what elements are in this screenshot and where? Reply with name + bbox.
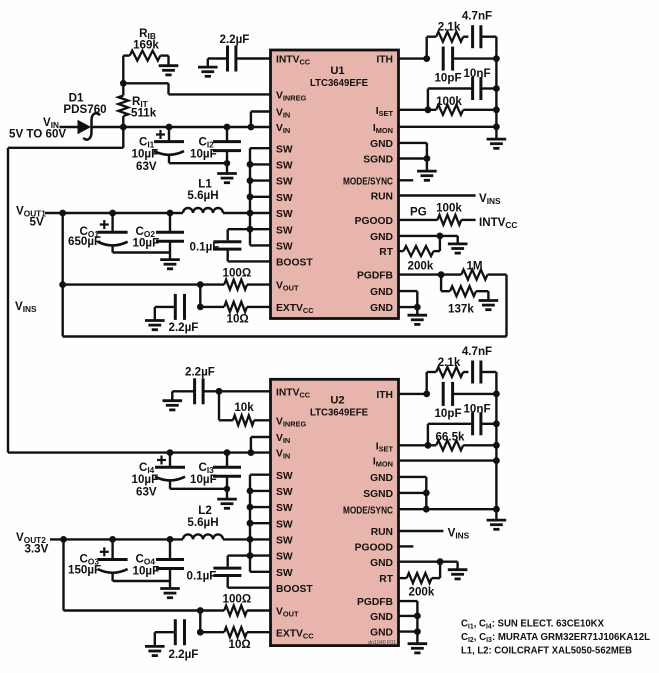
svg-text:10pF: 10pF: [434, 72, 461, 85]
pin label ITH of U1: [376, 55, 393, 66]
pin label SGND of U2: [363, 489, 393, 500]
svg-text:SW: SW: [276, 519, 293, 530]
resistor 100k PGOOD U1: [438, 215, 476, 225]
note line 3 L1 L2: [461, 645, 632, 656]
IC U1 part number LTC3649EFE: [310, 78, 368, 89]
svg-text:10Ω: 10Ω: [227, 313, 249, 326]
label 0.1uF U2: [187, 570, 217, 583]
svg-text:2.1k: 2.1k: [438, 356, 461, 369]
capacitor 2.2uF at U2 INTVCC: [195, 378, 204, 404]
pin label SW2 of U1: [276, 161, 293, 172]
plus sign CI4: [157, 456, 166, 465]
net label PG: [410, 206, 427, 219]
capacitor 4.7nF U1: [473, 25, 481, 48]
wire VIN rail left run: [8, 147, 123, 149]
ground below RIB: [159, 66, 179, 75]
wire VOUT row: [63, 283, 225, 285]
wire right bus: [495, 37, 497, 139]
svg-text:63V: 63V: [136, 486, 157, 499]
svg-text:10nF: 10nF: [463, 402, 490, 415]
wire U2 PGDFB to GND chain: [399, 601, 418, 644]
wire PGDFB down to 137k: [440, 275, 442, 292]
wire U2 ITH to bus: [453, 393, 497, 395]
ground below CO2: [160, 260, 180, 269]
pin label SW1 of U2: [276, 471, 293, 482]
svg-text:RT: RT: [379, 247, 393, 258]
label CI3: [199, 461, 215, 475]
resistor 100k ISET U1: [436, 105, 496, 115]
pin label VIN (lower) of U1: [276, 123, 290, 135]
svg-text:10µF: 10µF: [132, 473, 159, 486]
label 10pF U2: [434, 407, 461, 420]
svg-text:5.6µH: 5.6µH: [187, 189, 218, 202]
ground below CI3: [217, 499, 237, 508]
svg-text:1M: 1M: [466, 260, 482, 273]
pin label SW7 of U1: [276, 242, 293, 253]
label 2.2uF at U2 EXTVCC: [169, 648, 199, 661]
wire U2 10nF to bus: [481, 423, 497, 425]
label 2.1k U2: [438, 356, 461, 369]
svg-text:SW: SW: [276, 568, 293, 579]
svg-text:66.5k: 66.5k: [435, 430, 465, 443]
wire VIN rail drop: [122, 127, 124, 148]
net label VIN 5V TO 60V: [9, 116, 66, 141]
capacitor CI1 10uF 63V: [154, 127, 184, 163]
pin label GND of U2: [370, 473, 393, 484]
svg-text:LTC3649EFE: LTC3649EFE: [310, 78, 368, 89]
svg-text:SW: SW: [276, 503, 293, 514]
pin label PGDFB of U2: [357, 597, 393, 608]
label L2: [198, 504, 212, 517]
svg-text:BOOST: BOOST: [276, 584, 313, 595]
wire PGOOD pin: [399, 219, 438, 221]
wire U2 right bus: [495, 372, 497, 520]
wire SW4 pin stub: [250, 196, 271, 198]
IC U2 reference designator: [330, 394, 344, 406]
svg-text:SW: SW: [276, 536, 293, 547]
wire U2 SW2 pin stub: [250, 490, 271, 492]
svg-text:PGOOD: PGOOD: [355, 543, 393, 554]
pin label SW7 of U2: [276, 568, 293, 579]
pin label BOOST of U1: [276, 258, 313, 269]
svg-text:10Ω: 10Ω: [229, 638, 251, 651]
note line 2 CI2 CI3: [461, 632, 651, 644]
label 100ohm U2: [223, 593, 252, 606]
pin label ISET of U2: [376, 441, 394, 453]
pin label PGOOD of U2: [355, 543, 393, 554]
svg-text:PGDFB: PGDFB: [357, 597, 393, 608]
svg-text:650µF: 650µF: [68, 235, 101, 248]
wire U2 SW bus vertical: [249, 475, 251, 572]
node CI1 tap: [166, 124, 173, 131]
node VOUT sense tap: [59, 281, 66, 288]
wire U2 ISET pin: [399, 444, 437, 446]
node EXTVCC row junction: [197, 304, 204, 311]
wire U2 SW7 pin stub: [250, 571, 271, 573]
node U2 column top: [197, 607, 204, 614]
pin label VIN (lower) of U2: [276, 449, 290, 461]
capacitor 2.2uF at U2 EXTVCC: [175, 619, 184, 645]
svg-text:IMON: IMON: [373, 457, 393, 469]
wire ITH up branch: [426, 37, 428, 59]
ground right bus U2: [487, 520, 507, 529]
wire PGDFB pin: [399, 273, 442, 275]
pin label INTVCC of U1: [276, 55, 311, 67]
op-amp-style IC U1 LTC3649EFE body: [271, 50, 399, 319]
svg-text:137k: 137k: [448, 303, 474, 316]
node U2 GND3 junction: [414, 613, 421, 620]
svg-text:4.7nF: 4.7nF: [462, 345, 492, 358]
wire 0.1uF to BOOST U2: [228, 576, 271, 588]
wire IMON pin: [399, 126, 497, 128]
wire SGND pin: [399, 157, 427, 159]
net label INTVCC at U1 PGOOD: [479, 216, 517, 230]
ground at U1 INTVCC cap: [198, 67, 218, 76]
wire U2 2.2uF left to ground: [155, 632, 176, 646]
wire U1 GND pins chain: [399, 291, 418, 315]
svg-text:63V: 63V: [136, 160, 157, 173]
svg-text:0.1µF: 0.1µF: [190, 241, 220, 254]
net label VOUT1 5V: [16, 205, 46, 229]
label 0.1uF U1: [190, 241, 220, 254]
svg-text:2.2µF: 2.2µF: [185, 366, 215, 379]
label PDS760: [63, 103, 106, 116]
node 10nF bus junction: [493, 85, 500, 92]
svg-text:MODE/SYNC: MODE/SYNC: [343, 176, 393, 187]
node U2 SW bus junction 6: [247, 552, 254, 559]
svg-text:SW: SW: [276, 471, 293, 482]
node SW bus junction 6: [247, 226, 254, 233]
resistor 10ohm U2: [200, 627, 270, 637]
svg-text:SW: SW: [276, 209, 293, 220]
label 10ohm U2: [229, 638, 251, 651]
svg-text:2.2µF: 2.2µF: [169, 321, 199, 334]
net label VOUT2 3.3V: [16, 531, 49, 556]
capacitor 0.1uF BOOST U2: [213, 568, 241, 575]
svg-text:0.1µF: 0.1µF: [187, 570, 217, 583]
ground at U1 EXTVCC cap: [145, 321, 165, 330]
node SW bus junction 3: [247, 177, 254, 184]
wire ITH to bus: [453, 57, 497, 59]
node ITH junction: [423, 55, 430, 62]
node VOUT1: [59, 210, 66, 217]
pin label SW3 of U2: [276, 503, 293, 514]
node ITH bus junction: [493, 55, 500, 62]
svg-text:VIN: VIN: [276, 449, 290, 461]
label 100k PGOOD U1: [436, 202, 462, 215]
node SW bus junction 4: [247, 193, 254, 200]
wire U2 4.7nF to bus: [481, 371, 497, 373]
node CI2 tap: [224, 124, 231, 131]
resistor 10k U2: [233, 415, 271, 425]
svg-text:ITH: ITH: [376, 390, 393, 401]
pin label GND (RT row) of U1: [370, 232, 393, 243]
pin label VIN (upper) of U1: [276, 108, 290, 120]
svg-text:GND: GND: [370, 303, 393, 314]
svg-text:L1, L2: COILCRAFT XAL5050-562M: L1, L2: COILCRAFT XAL5050-562MEB: [461, 645, 632, 656]
label CI4 10uF: [132, 473, 159, 486]
svg-text:SW: SW: [276, 242, 293, 253]
svg-text:MODE/SYNC: MODE/SYNC: [343, 505, 393, 516]
node U2 SW bus junction 2: [247, 488, 254, 495]
wire 0.1uF to BOOST: [228, 249, 271, 261]
pin label GND (bottom) of U1: [370, 303, 393, 314]
svg-text:100k: 100k: [436, 95, 462, 108]
diode D1 PDS760 symbol: [78, 113, 101, 139]
wire 4.7nF to bus: [481, 36, 497, 38]
svg-text:VINREG: VINREG: [276, 416, 307, 428]
svg-text:GND: GND: [370, 473, 393, 484]
svg-text:SW: SW: [276, 552, 293, 563]
wire 10nF branch: [428, 89, 473, 110]
svg-text:100Ω: 100Ω: [223, 593, 252, 606]
op-amp-style IC U2 LTC3649EFE body: [271, 379, 399, 645]
label 2.2uF at U1 INTVCC: [220, 33, 250, 46]
svg-text:RUN: RUN: [371, 192, 393, 203]
label 169k: [133, 39, 159, 52]
capacitor 0.1uF BOOST U1: [213, 242, 241, 249]
wire CI4-CI3 bottom: [170, 488, 227, 490]
label RIB: [139, 27, 156, 41]
ground at 137k: [479, 301, 499, 310]
svg-text:511k: 511k: [131, 107, 157, 120]
resistor 2.1k U2: [427, 367, 469, 377]
wire GND pin to SGND: [399, 143, 427, 159]
node CO4 tap: [167, 536, 174, 543]
pin label VINREG of U1: [276, 91, 307, 103]
node U2 IMON bus junction: [493, 457, 500, 464]
label CO1: [80, 225, 100, 239]
wire VOUT2 to L2: [50, 538, 183, 540]
svg-text:LTC3649EFE: LTC3649EFE: [310, 407, 368, 418]
wire VIN bus: [251, 112, 271, 128]
wire SW bus tap to 0.1uF: [228, 229, 250, 240]
svg-text:EXTVCC: EXTVCC: [276, 628, 314, 640]
wire L1 to SW bus: [223, 212, 250, 214]
node U2 INTVCC junction: [216, 388, 223, 395]
label 10ohm U1: [227, 313, 249, 326]
pin label VIN (upper) of U2: [276, 433, 290, 445]
wire U2 SW4 pin stub: [250, 522, 271, 524]
label 200k U2: [409, 586, 435, 599]
svg-text:INTVCC: INTVCC: [276, 387, 311, 399]
pin label SW4 of U2: [276, 519, 293, 530]
label CI1 10uF: [132, 148, 159, 161]
wire RIB node to VINREG step: [123, 83, 270, 94]
wire U2 GND3 pin: [399, 615, 418, 617]
svg-text:ISET: ISET: [376, 441, 394, 453]
node U2 GND/RT junction: [437, 558, 444, 565]
pin label EXTVCC of U1: [276, 303, 314, 315]
node U2 ISET bus junction: [493, 442, 500, 449]
wire VIN row: [123, 126, 251, 128]
svg-text:5V: 5V: [30, 216, 44, 229]
wire VOUT2 vertical drop: [62, 539, 64, 610]
wire U2 VIN row: [8, 451, 251, 453]
resistor 2.1k U1: [427, 32, 469, 42]
svg-text:SW: SW: [276, 177, 293, 188]
svg-text:100Ω: 100Ω: [223, 267, 252, 280]
resistor RIB 169k: [123, 51, 168, 61]
inductor L1 5.6uH: [183, 208, 223, 213]
svg-text:GND: GND: [370, 139, 393, 150]
pin label GND of U1: [370, 139, 393, 150]
label CO3: [80, 553, 100, 567]
svg-text:dn1040 F01: dn1040 F01: [368, 640, 396, 646]
plus sign CO3: [100, 547, 109, 556]
IC U2 part number LTC3649EFE: [310, 407, 368, 418]
ground right bus U1: [487, 139, 507, 148]
label 2.1k U1: [438, 21, 461, 34]
pin label MODE/SYNC of U1: [343, 176, 393, 187]
wire U2 SW6 pin stub: [250, 554, 271, 556]
wire RIB to ground: [167, 56, 169, 66]
pin label RUN of U2: [371, 527, 393, 538]
label 66.5k: [435, 430, 465, 443]
capacitor 10pF U1: [443, 47, 452, 71]
net label VINS at U1 RUN: [479, 192, 501, 206]
label CI2: [199, 136, 215, 150]
node U2 ITH junction: [423, 391, 430, 398]
svg-text:SW: SW: [276, 144, 293, 155]
wire INTVCC to 10k: [219, 391, 233, 420]
net label VINS on left rail: [15, 300, 37, 314]
pin label INTVCC of U2: [276, 387, 311, 399]
wire SW7 pin stub: [250, 244, 271, 246]
svg-text:IMON: IMON: [373, 123, 393, 135]
node U2 MODE bus junction: [493, 506, 500, 513]
capacitor CO3 150uF: [98, 539, 128, 581]
node CO2 tap: [167, 210, 174, 217]
wire U2 SGND pin: [399, 492, 427, 494]
svg-text:10µF: 10µF: [132, 148, 159, 161]
svg-text:SW: SW: [276, 161, 293, 172]
label L1 5.6uH: [187, 189, 218, 202]
svg-text:SW: SW: [276, 225, 293, 236]
resistor 10ohm U1: [200, 302, 270, 312]
svg-text:GND: GND: [370, 628, 393, 639]
svg-text:VIN: VIN: [276, 433, 290, 445]
node VIN main node: [120, 124, 127, 131]
wire VOUT1 vertical drop: [62, 213, 64, 337]
wire U2 column: [199, 611, 201, 633]
svg-text:10µF: 10µF: [190, 473, 217, 486]
wire RIT node up to RIB: [122, 56, 124, 84]
ground at U2 INTVCC cap: [163, 401, 183, 410]
svg-text:200k: 200k: [408, 260, 434, 273]
ground at U2 RT GND: [448, 570, 468, 579]
wire GND pin RT row: [399, 235, 440, 237]
wire CO4 bottom to ground: [169, 581, 171, 589]
capacitor CI2 10uF: [213, 127, 241, 163]
wire RUN pin: [399, 194, 476, 196]
node ISET bus junction: [493, 106, 500, 113]
label 10k: [234, 401, 254, 414]
svg-text:PDS760: PDS760: [63, 103, 106, 116]
node VOUT2: [60, 536, 67, 543]
node SW bus junction 5: [247, 210, 254, 217]
wire VIN input: [60, 126, 78, 128]
node CI4 tap: [167, 449, 174, 456]
capacitor CO1 650uF: [98, 213, 128, 253]
svg-text:VOUT: VOUT: [276, 607, 299, 619]
svg-text:2.2µF: 2.2µF: [220, 33, 250, 46]
label CO4 10uF: [133, 565, 160, 578]
svg-text:VINREG: VINREG: [276, 91, 307, 103]
pin label ITH of U2: [376, 390, 393, 401]
wire ISET pin: [399, 109, 437, 111]
label CO1 650uF: [68, 235, 101, 248]
wire SW bus vertical: [249, 148, 251, 245]
wire U2 VOUT row: [64, 609, 225, 611]
svg-text:VIN: VIN: [276, 123, 290, 135]
node CI2 bottom: [224, 160, 230, 166]
label 10nF U1: [463, 67, 490, 80]
label CO3 150uF: [68, 564, 101, 577]
ground below CI2: [217, 174, 237, 183]
note line 1 CI1 CI4: [461, 619, 604, 631]
svg-text:PG: PG: [410, 206, 427, 219]
wire INTVCC pin to cap: [236, 57, 271, 59]
wire U2 GND pin to SGND: [399, 477, 427, 509]
wire SW2 pin stub: [250, 163, 271, 165]
capacitor CI4 10uF 63V: [155, 453, 185, 489]
svg-text:RUN: RUN: [371, 527, 393, 538]
svg-text:10nF: 10nF: [463, 67, 490, 80]
label 4.7nF U2: [462, 345, 492, 358]
pin label SW3 of U1: [276, 177, 293, 188]
wire U2 SW5 pin stub: [250, 538, 271, 540]
ground below CO4: [160, 589, 180, 598]
wire L2 to SW bus: [223, 538, 250, 540]
pin label SGND of U1: [363, 155, 393, 166]
node GND/RT junction: [437, 233, 444, 240]
node CO3 tap: [109, 536, 116, 543]
node U2 MODE junction: [423, 506, 430, 513]
wire U2 INTVCC cap to ground: [172, 391, 194, 400]
pin label SW5 of U1: [276, 209, 293, 220]
wire CI3 to ground: [226, 489, 228, 499]
label CI1: [139, 136, 155, 150]
svg-text:EXTVCC: EXTVCC: [276, 303, 314, 315]
pin label VOUT of U2: [276, 607, 299, 619]
wire U2 SW bus tap to 0.1uF: [228, 556, 250, 567]
svg-text:10µF: 10µF: [133, 565, 160, 578]
node U2 EXTVCC row junction: [197, 629, 204, 636]
capacitor 10nF U2: [473, 412, 481, 435]
node U2 ITH bus junction: [493, 391, 500, 398]
pin label SW5 of U2: [276, 536, 293, 547]
svg-text:GND: GND: [370, 558, 393, 569]
wire CO2 bottom to ground: [169, 253, 171, 260]
svg-text:SGND: SGND: [363, 155, 393, 166]
resistor 66.5k ISET U2: [436, 440, 496, 450]
svg-text:ISET: ISET: [376, 106, 394, 118]
pin label VOUT of U1: [276, 281, 299, 293]
resistor 137k U1: [441, 286, 488, 296]
capacitor CO4 10uF: [156, 539, 184, 581]
svg-text:U1: U1: [330, 65, 344, 77]
wire U2 SW1 pin stub: [250, 474, 271, 476]
label CI2 10uF: [190, 148, 217, 161]
node U2 GND4 junction: [414, 628, 421, 635]
svg-text:GND: GND: [370, 287, 393, 298]
ground at SGND U1: [417, 171, 437, 180]
wire VOUT1 to L1: [45, 212, 183, 214]
net label VINS at U2 RUN: [448, 527, 470, 541]
pin label SW1 of U1: [276, 144, 293, 155]
svg-text:PGDFB: PGDFB: [357, 271, 393, 282]
